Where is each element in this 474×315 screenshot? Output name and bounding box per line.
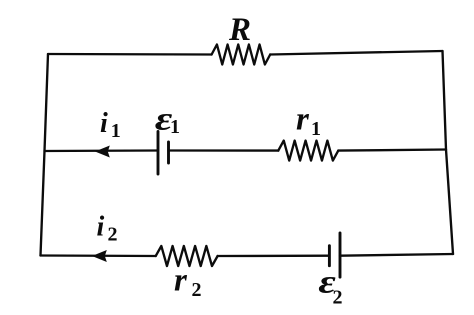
wire left branch — [41, 54, 49, 256]
wire middle-right segment — [338, 150, 446, 151]
arrow i2 direction — [92, 250, 107, 262]
battery E1 short plate — [167, 142, 170, 163]
battery E2 short plate — [328, 246, 331, 266]
svg-text:1: 1 — [311, 118, 321, 140]
wire middle-left segment — [45, 149, 159, 152]
wire bottom-center segment — [218, 255, 330, 258]
svg-text:2: 2 — [108, 224, 118, 246]
svg-text:r: r — [296, 102, 310, 138]
battery E2 long plate — [339, 233, 342, 277]
svg-text:1: 1 — [111, 120, 121, 142]
svg-text:i: i — [97, 212, 105, 243]
svg-text:r: r — [174, 263, 188, 299]
arrow i1 direction — [95, 146, 110, 158]
resistor R — [212, 45, 271, 65]
svg-text:1: 1 — [170, 116, 180, 138]
wire right branch — [443, 51, 454, 254]
svg-text:i: i — [100, 108, 108, 139]
wire top-right segment — [270, 51, 442, 55]
wire bottom-left segment — [41, 254, 156, 257]
svg-text:2: 2 — [333, 287, 343, 309]
svg-text:2: 2 — [192, 279, 202, 301]
wire middle-center segment — [169, 149, 279, 151]
wire top-left segment — [48, 53, 212, 56]
resistor r2 — [156, 246, 218, 266]
battery E1 long plate — [157, 132, 160, 175]
wire bottom-right segment — [340, 254, 453, 256]
svg-text:R: R — [228, 12, 251, 48]
resistor r1 — [278, 141, 338, 161]
